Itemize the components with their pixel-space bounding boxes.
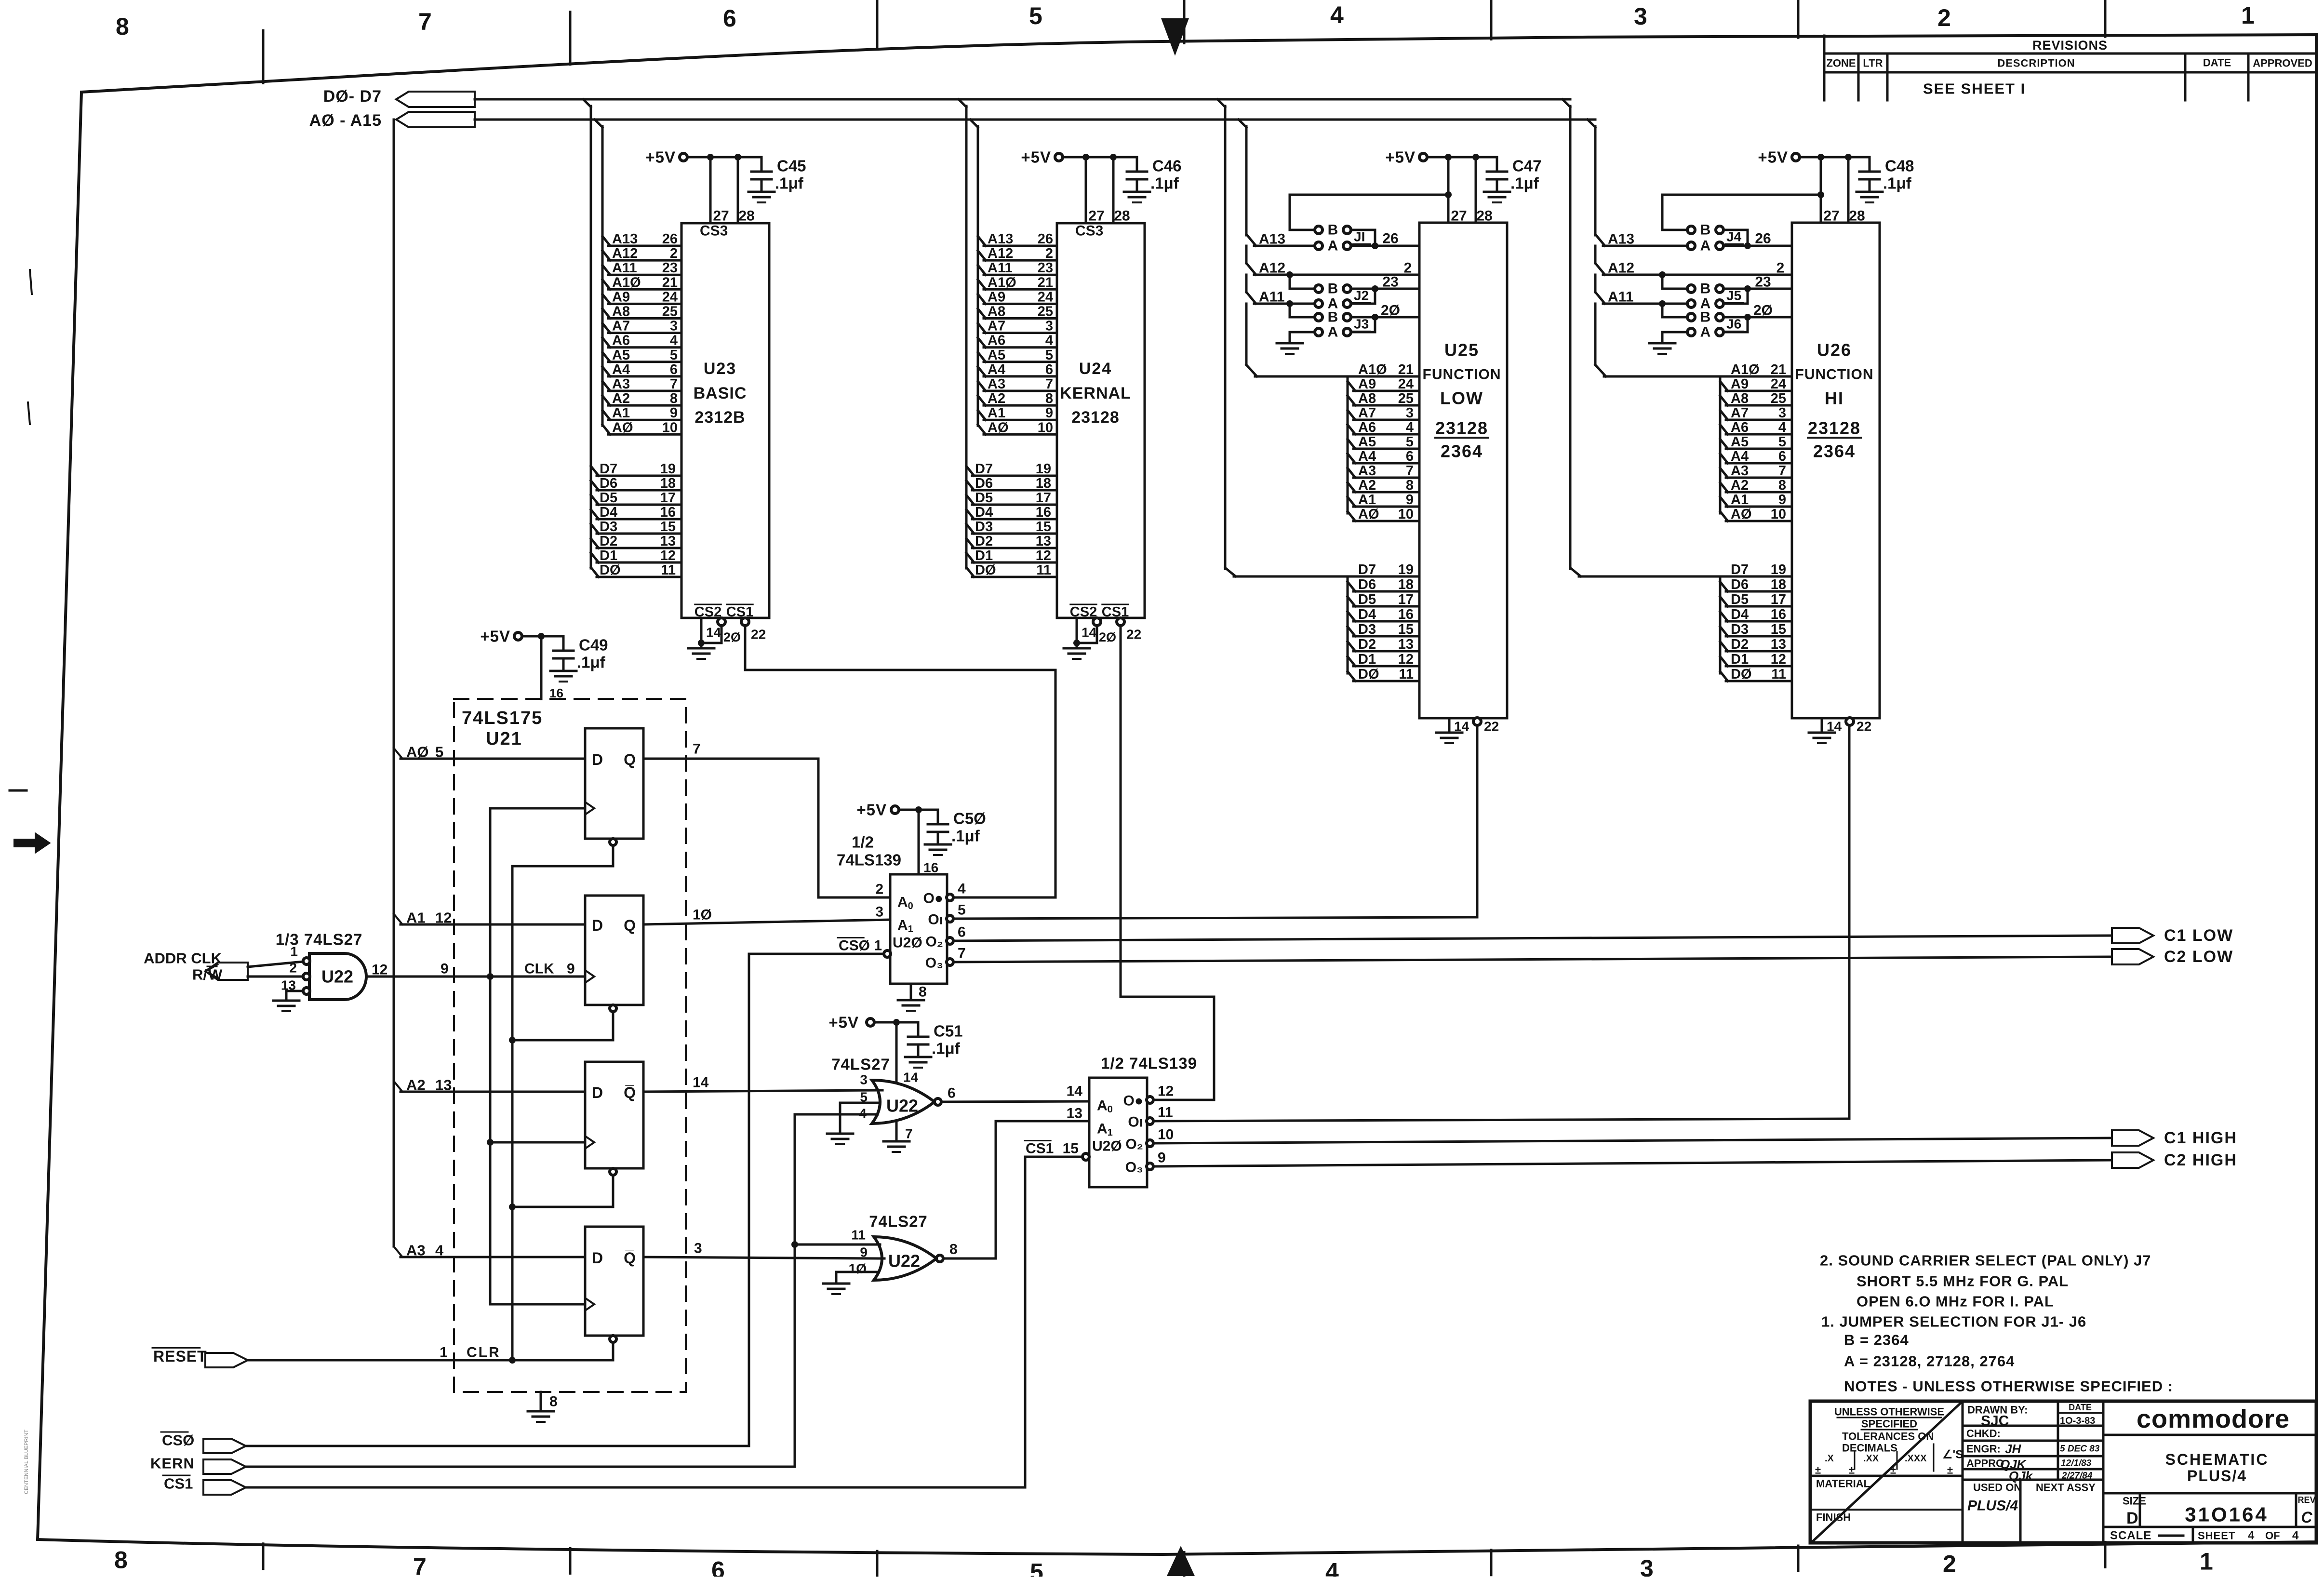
svg-text:+5V: +5V xyxy=(480,628,510,645)
svg-text:O₂: O₂ xyxy=(1125,1137,1143,1152)
svg-text:9: 9 xyxy=(1045,405,1053,421)
svg-text:15: 15 xyxy=(1063,1141,1079,1157)
svg-text:OPEN 6.O MHz FOR I. PAL: OPEN 6.O MHz FOR I. PAL xyxy=(1857,1293,2054,1310)
svg-text:14: 14 xyxy=(706,625,721,640)
svg-text:U24: U24 xyxy=(1079,360,1112,378)
svg-text:12: 12 xyxy=(435,910,452,926)
svg-text:A4: A4 xyxy=(1731,449,1749,464)
svg-text:.1μf: .1μf xyxy=(577,654,606,671)
svg-text:AØ: AØ xyxy=(612,420,633,435)
svg-text:1Ø: 1Ø xyxy=(693,907,712,923)
svg-text:26: 26 xyxy=(1755,231,1771,247)
svg-text:A5: A5 xyxy=(1731,434,1749,450)
svg-text:6: 6 xyxy=(670,362,678,377)
svg-text:D7: D7 xyxy=(1358,562,1376,577)
svg-text:11: 11 xyxy=(851,1228,866,1243)
svg-text:11: 11 xyxy=(1399,667,1414,682)
svg-text:2: 2 xyxy=(1045,246,1053,261)
svg-text:U21: U21 xyxy=(486,729,522,749)
svg-text:.1μf: .1μf xyxy=(1883,174,1912,192)
svg-text:CS3: CS3 xyxy=(700,223,728,239)
svg-text:3: 3 xyxy=(1406,405,1414,421)
svg-text:D: D xyxy=(592,917,603,934)
svg-text:A: A xyxy=(1700,238,1711,254)
svg-text:6: 6 xyxy=(1778,449,1786,464)
svg-text:15: 15 xyxy=(1398,622,1414,637)
svg-text:D4: D4 xyxy=(1731,607,1749,622)
svg-text:18: 18 xyxy=(1036,476,1051,491)
svg-text:CS3: CS3 xyxy=(1075,223,1103,239)
svg-text:PLUS/4: PLUS/4 xyxy=(2187,1467,2247,1485)
svg-text:5: 5 xyxy=(1029,2,1042,29)
svg-text:A2: A2 xyxy=(1731,478,1749,493)
svg-text:13: 13 xyxy=(660,534,676,549)
svg-text:A13: A13 xyxy=(988,231,1013,247)
svg-text:A3: A3 xyxy=(612,376,630,392)
svg-text:D1: D1 xyxy=(600,548,617,563)
svg-text:MATERIAL: MATERIAL xyxy=(1816,1478,1870,1490)
svg-text:13: 13 xyxy=(1398,637,1414,652)
svg-text:U22: U22 xyxy=(321,967,353,987)
svg-text:14: 14 xyxy=(1827,719,1842,734)
svg-text:74LS27: 74LS27 xyxy=(831,1056,890,1073)
svg-text:23: 23 xyxy=(662,260,678,276)
svg-text:15: 15 xyxy=(1771,622,1786,637)
svg-text:J5: J5 xyxy=(1726,288,1741,303)
svg-text:9: 9 xyxy=(441,961,449,977)
svg-text:26: 26 xyxy=(1382,231,1398,247)
svg-text:HI: HI xyxy=(1825,388,1844,408)
svg-text:REV: REV xyxy=(2297,1495,2315,1505)
svg-text:U22: U22 xyxy=(888,1251,920,1271)
svg-text:D4: D4 xyxy=(975,505,993,520)
svg-text:A7: A7 xyxy=(988,319,1005,334)
svg-text:4: 4 xyxy=(1406,420,1414,435)
svg-text:SCHEMATIC: SCHEMATIC xyxy=(2165,1451,2269,1468)
svg-text:D7: D7 xyxy=(975,461,993,477)
svg-text:4: 4 xyxy=(2248,1529,2255,1542)
svg-text:3: 3 xyxy=(1778,405,1786,421)
svg-text:5: 5 xyxy=(1406,434,1414,450)
svg-text:8: 8 xyxy=(1406,478,1414,493)
svg-text:12: 12 xyxy=(372,962,387,978)
svg-text:A12: A12 xyxy=(988,246,1013,261)
svg-text:A4: A4 xyxy=(1358,449,1376,464)
svg-text:D3: D3 xyxy=(975,519,993,535)
svg-text:12: 12 xyxy=(1036,548,1051,563)
svg-text:UNLESS OTHERWISE: UNLESS OTHERWISE xyxy=(1834,1406,1944,1418)
svg-text:4: 4 xyxy=(670,333,678,348)
svg-text:.1μf: .1μf xyxy=(932,1040,961,1057)
svg-text:21: 21 xyxy=(1771,362,1786,377)
svg-text:22: 22 xyxy=(1857,719,1871,734)
svg-text:A11: A11 xyxy=(1608,289,1633,305)
svg-text:CSØ: CSØ xyxy=(162,1432,194,1449)
svg-text:A1: A1 xyxy=(612,405,630,421)
svg-text:7: 7 xyxy=(1045,376,1053,392)
svg-text:3: 3 xyxy=(670,319,678,334)
svg-text:2: 2 xyxy=(1776,260,1785,276)
svg-text:D: D xyxy=(592,1084,603,1101)
svg-text:A2: A2 xyxy=(988,391,1005,406)
svg-text:6: 6 xyxy=(958,924,966,940)
svg-text:A13: A13 xyxy=(1259,231,1285,247)
svg-text:17: 17 xyxy=(1771,592,1786,607)
svg-text:A = 23128, 27128, 2764: A = 23128, 27128, 2764 xyxy=(1844,1353,2015,1370)
svg-text:8: 8 xyxy=(670,391,678,406)
svg-text:28: 28 xyxy=(1849,208,1865,224)
svg-text:12: 12 xyxy=(1158,1084,1174,1099)
svg-text:U23: U23 xyxy=(704,360,736,378)
svg-text:D2: D2 xyxy=(1358,637,1376,652)
svg-text:D6: D6 xyxy=(1358,577,1376,592)
svg-text:A: A xyxy=(1700,324,1711,340)
svg-text:8: 8 xyxy=(949,1242,958,1258)
svg-text:C45: C45 xyxy=(777,157,806,175)
svg-text:LOW: LOW xyxy=(1440,388,1483,408)
svg-text:FINISH: FINISH xyxy=(1816,1512,1851,1524)
svg-text:USED ON: USED ON xyxy=(1973,1482,2021,1494)
svg-text:D3: D3 xyxy=(600,519,617,535)
svg-text:18: 18 xyxy=(660,476,676,491)
svg-text:14: 14 xyxy=(903,1070,919,1085)
svg-text:26: 26 xyxy=(1038,231,1053,247)
svg-text:LTR: LTR xyxy=(1863,57,1883,69)
svg-text:SHEET: SHEET xyxy=(2198,1530,2235,1542)
svg-text:A8: A8 xyxy=(612,304,630,320)
svg-text:A7: A7 xyxy=(1731,405,1749,421)
svg-text:A: A xyxy=(1328,238,1338,254)
svg-text:U2Ø: U2Ø xyxy=(893,935,922,951)
svg-text:28: 28 xyxy=(1114,208,1130,224)
svg-text:±: ± xyxy=(1947,1464,1953,1476)
svg-text:.X: .X xyxy=(1825,1453,1834,1464)
svg-text:8: 8 xyxy=(1045,391,1053,406)
svg-text:ZONE: ZONE xyxy=(1826,57,1856,69)
svg-text:A1: A1 xyxy=(1358,492,1376,508)
svg-text:A: A xyxy=(1328,324,1338,340)
svg-text:Q̅: Q̅ xyxy=(624,1249,636,1267)
svg-text:AØ: AØ xyxy=(988,420,1009,435)
svg-text:A5: A5 xyxy=(1358,434,1376,450)
svg-text:D: D xyxy=(2126,1509,2138,1527)
svg-text:1. JUMPER SELECTION FOR: 1. JUMPER SELECTION FOR J1- J6 xyxy=(1821,1313,2086,1330)
svg-text:4: 4 xyxy=(2292,1529,2299,1542)
svg-text:A8: A8 xyxy=(1731,391,1749,406)
svg-text:C2 HIGH: C2 HIGH xyxy=(2164,1151,2237,1169)
svg-text:1/2 74LS139: 1/2 74LS139 xyxy=(1101,1055,1197,1072)
svg-text:7: 7 xyxy=(413,1553,427,1577)
svg-text:9: 9 xyxy=(567,961,575,977)
svg-text:6: 6 xyxy=(1406,449,1414,464)
svg-text:BASIC: BASIC xyxy=(694,384,747,402)
svg-text:27: 27 xyxy=(713,208,729,224)
svg-text:2364: 2364 xyxy=(1441,442,1483,461)
svg-text:A1Ø: A1Ø xyxy=(988,275,1016,290)
svg-text:CSØ: CSØ xyxy=(839,938,870,954)
svg-text:3: 3 xyxy=(694,1241,702,1257)
svg-text:21: 21 xyxy=(1038,275,1053,290)
svg-text:DØ: DØ xyxy=(1731,667,1752,682)
svg-text:CHKD:: CHKD: xyxy=(1966,1428,2001,1440)
svg-text:D1: D1 xyxy=(975,548,993,563)
svg-text:CS1: CS1 xyxy=(1026,1141,1054,1157)
svg-text:7: 7 xyxy=(905,1126,913,1141)
svg-text:74LS27: 74LS27 xyxy=(869,1213,928,1231)
svg-text:B: B xyxy=(1700,281,1711,297)
svg-text:B: B xyxy=(1328,309,1338,325)
svg-text:DØ: DØ xyxy=(975,562,996,578)
svg-text:A2: A2 xyxy=(1358,478,1376,493)
svg-text:12: 12 xyxy=(660,548,676,563)
svg-text:C1 LOW: C1 LOW xyxy=(2164,926,2233,945)
svg-text:C: C xyxy=(2301,1509,2312,1526)
svg-text:8: 8 xyxy=(549,1394,558,1410)
svg-text:13: 13 xyxy=(1036,534,1051,549)
svg-text:10: 10 xyxy=(1398,507,1414,522)
svg-text:25: 25 xyxy=(1771,391,1786,406)
svg-text:OF: OF xyxy=(2265,1530,2280,1542)
svg-text:+5V: +5V xyxy=(856,801,887,819)
svg-text:A12: A12 xyxy=(612,246,638,261)
svg-text:D7: D7 xyxy=(1731,562,1749,577)
svg-text:4: 4 xyxy=(958,881,966,897)
svg-text:A3: A3 xyxy=(988,376,1005,392)
svg-text:J2: J2 xyxy=(1354,288,1369,303)
svg-text:A6: A6 xyxy=(612,333,630,348)
svg-text:9: 9 xyxy=(1406,492,1414,508)
svg-text:DESCRIPTION: DESCRIPTION xyxy=(1997,57,2075,69)
svg-text:D2: D2 xyxy=(975,534,993,549)
svg-text:26: 26 xyxy=(662,231,678,247)
svg-text:C1 HIGH: C1 HIGH xyxy=(2164,1129,2237,1147)
svg-text:NEXT ASSY: NEXT ASSY xyxy=(2036,1482,2096,1494)
svg-text:8: 8 xyxy=(1778,478,1786,493)
svg-text:U22: U22 xyxy=(886,1096,918,1116)
svg-text:Oı: Oı xyxy=(1128,1114,1143,1130)
svg-text:SHORT 5.5 MHz FOR G. PAL: SHORT 5.5 MHz FOR G. PAL xyxy=(1857,1273,2069,1290)
svg-text:5: 5 xyxy=(435,744,443,761)
svg-text:commodore: commodore xyxy=(2137,1405,2290,1433)
svg-text:A6: A6 xyxy=(988,333,1005,348)
svg-text:APPROVED: APPROVED xyxy=(2253,57,2312,69)
svg-text:5: 5 xyxy=(1778,434,1786,450)
svg-text:C46: C46 xyxy=(1152,157,1182,175)
svg-text:1: 1 xyxy=(290,944,298,959)
svg-text:D1: D1 xyxy=(1731,652,1749,667)
svg-text:9: 9 xyxy=(860,1245,868,1260)
svg-text:5 DEC 83: 5 DEC 83 xyxy=(2060,1444,2100,1454)
svg-text:25: 25 xyxy=(1398,391,1414,406)
svg-text:FUNCTION: FUNCTION xyxy=(1423,367,1501,383)
svg-text:4: 4 xyxy=(1778,420,1786,435)
svg-text:13: 13 xyxy=(1067,1106,1082,1122)
svg-text:DØ- D7: DØ- D7 xyxy=(323,87,382,106)
svg-text:J3: J3 xyxy=(1354,317,1369,332)
svg-text:3: 3 xyxy=(860,1072,868,1087)
svg-text:CS1: CS1 xyxy=(164,1475,193,1492)
svg-text:A4: A4 xyxy=(988,362,1005,377)
svg-text:C47: C47 xyxy=(1512,157,1542,175)
svg-text:KERN: KERN xyxy=(150,1455,195,1472)
svg-text:10: 10 xyxy=(1158,1127,1174,1143)
svg-text:D5: D5 xyxy=(1731,592,1749,607)
svg-text:.1μf: .1μf xyxy=(1150,174,1179,192)
svg-text:23128: 23128 xyxy=(1435,418,1488,438)
svg-text:DØ: DØ xyxy=(1358,667,1379,682)
svg-text:13: 13 xyxy=(435,1077,452,1094)
svg-text:2Ø: 2Ø xyxy=(723,630,741,644)
svg-text:A5: A5 xyxy=(988,348,1005,363)
svg-text:8: 8 xyxy=(919,984,927,1000)
svg-text:.1μf: .1μf xyxy=(775,174,804,192)
svg-text:7: 7 xyxy=(670,376,678,392)
svg-text:+5V: +5V xyxy=(1758,148,1788,166)
svg-text:16: 16 xyxy=(660,505,676,520)
svg-text:16: 16 xyxy=(1771,607,1786,622)
svg-text:23: 23 xyxy=(1038,260,1053,276)
svg-text:17: 17 xyxy=(1036,490,1051,506)
svg-text:21: 21 xyxy=(1398,362,1414,377)
svg-text:A7: A7 xyxy=(612,319,630,334)
svg-text:4: 4 xyxy=(435,1242,444,1259)
svg-text:5: 5 xyxy=(670,348,678,363)
svg-text:2. SOUND CARRIER SELECT (: 2. SOUND CARRIER SELECT (PAL ONLY) J7 xyxy=(1820,1252,2151,1269)
svg-text:+5V: +5V xyxy=(645,148,676,166)
svg-text:A0: A0 xyxy=(1097,1098,1113,1115)
svg-text:SEE SHEET I: SEE SHEET I xyxy=(1923,80,2026,97)
svg-text:Q̅: Q̅ xyxy=(624,1084,636,1101)
svg-text:C2 LOW: C2 LOW xyxy=(2164,948,2233,966)
svg-text:A6: A6 xyxy=(1731,420,1749,435)
svg-text:B = 2364: B = 2364 xyxy=(1844,1332,1909,1349)
svg-text:DATE: DATE xyxy=(2203,57,2231,69)
svg-text:C48: C48 xyxy=(1885,157,1914,175)
svg-text:A1Ø: A1Ø xyxy=(612,275,641,290)
svg-text:19: 19 xyxy=(1036,461,1051,477)
svg-text:.1μf: .1μf xyxy=(951,827,980,845)
svg-text:1: 1 xyxy=(440,1345,448,1361)
svg-text:DØ: DØ xyxy=(600,562,621,578)
svg-text:A11: A11 xyxy=(1259,289,1284,305)
svg-text:2: 2 xyxy=(875,882,883,897)
svg-text:1/2: 1/2 xyxy=(852,833,874,851)
svg-text:1Ø: 1Ø xyxy=(849,1261,867,1276)
svg-text:A13: A13 xyxy=(1608,231,1634,247)
svg-text:1: 1 xyxy=(874,938,882,954)
svg-text:AØ: AØ xyxy=(1358,507,1379,522)
svg-text:A13: A13 xyxy=(612,231,638,247)
svg-text:R/: R/ xyxy=(192,966,207,983)
svg-text:+5V: +5V xyxy=(1021,148,1051,166)
svg-text:A9: A9 xyxy=(1731,376,1749,392)
svg-text:17: 17 xyxy=(1398,592,1414,607)
svg-text:D4: D4 xyxy=(1358,607,1376,622)
svg-text:23128: 23128 xyxy=(1808,418,1861,438)
svg-text:1: 1 xyxy=(2241,2,2255,29)
svg-text:25: 25 xyxy=(1038,304,1053,320)
svg-text:CS2: CS2 xyxy=(1070,604,1097,620)
svg-text:D6: D6 xyxy=(600,476,617,491)
svg-text:A8: A8 xyxy=(1358,391,1376,406)
svg-text:7: 7 xyxy=(958,946,966,962)
svg-text:A7: A7 xyxy=(1358,405,1376,421)
svg-text:5: 5 xyxy=(1030,1559,1043,1577)
svg-text:27: 27 xyxy=(1451,208,1467,224)
svg-text:A11: A11 xyxy=(988,260,1013,276)
svg-text:6: 6 xyxy=(1045,362,1053,377)
svg-text:11: 11 xyxy=(1158,1105,1173,1121)
svg-text:9: 9 xyxy=(1778,492,1786,508)
svg-text:AØ: AØ xyxy=(1731,507,1752,522)
svg-text:D3: D3 xyxy=(1731,622,1749,637)
svg-text:B: B xyxy=(1700,222,1711,238)
svg-text:10: 10 xyxy=(662,420,678,435)
svg-text:6: 6 xyxy=(711,1557,725,1577)
svg-text:19: 19 xyxy=(1771,562,1786,577)
svg-text:2/27/84: 2/27/84 xyxy=(2061,1471,2093,1481)
svg-text:B: B xyxy=(1328,281,1338,297)
svg-text:SJC: SJC xyxy=(1981,1413,2009,1429)
svg-text:16: 16 xyxy=(1036,505,1051,520)
svg-text:Q: Q xyxy=(624,917,636,934)
svg-text:A1: A1 xyxy=(1097,1121,1113,1138)
svg-text:19: 19 xyxy=(660,461,676,477)
svg-text:2Ø: 2Ø xyxy=(1753,303,1773,319)
svg-text:74LS139: 74LS139 xyxy=(837,851,901,869)
svg-text:12: 12 xyxy=(1398,652,1414,667)
svg-text:D5: D5 xyxy=(1358,592,1376,607)
svg-text:23: 23 xyxy=(1755,274,1771,290)
svg-text:19: 19 xyxy=(1398,562,1414,577)
svg-text:DECIMALS: DECIMALS xyxy=(1842,1442,1897,1454)
svg-text:A3: A3 xyxy=(1358,463,1376,479)
svg-text:A1: A1 xyxy=(988,405,1005,421)
svg-text:D6: D6 xyxy=(1731,577,1749,592)
svg-text:15: 15 xyxy=(1036,519,1051,535)
svg-text:7: 7 xyxy=(418,8,432,35)
svg-text:O●: O● xyxy=(1123,1093,1143,1109)
svg-text:A4: A4 xyxy=(612,362,630,377)
svg-text:7: 7 xyxy=(1406,463,1414,479)
svg-text:RESET: RESET xyxy=(153,1348,207,1365)
svg-text:DATE: DATE xyxy=(2069,1403,2092,1412)
svg-text:14: 14 xyxy=(693,1075,709,1091)
svg-text:2Ø: 2Ø xyxy=(1099,630,1116,644)
svg-text:24: 24 xyxy=(1398,376,1414,392)
svg-text:±: ± xyxy=(1849,1464,1855,1476)
svg-text:D2: D2 xyxy=(600,534,617,549)
svg-text:15: 15 xyxy=(660,519,676,535)
svg-text:4: 4 xyxy=(1045,333,1053,348)
svg-text:9: 9 xyxy=(1158,1150,1166,1166)
svg-text:1O-3-83: 1O-3-83 xyxy=(2060,1416,2095,1426)
svg-text:A1: A1 xyxy=(406,910,426,926)
svg-text:CLK: CLK xyxy=(524,961,554,977)
svg-text:14: 14 xyxy=(1082,625,1097,640)
svg-text:11: 11 xyxy=(1771,667,1786,682)
svg-text:NOTES - UNLESS OTHERWISE SPE: NOTES - UNLESS OTHERWISE SPECIFIED : xyxy=(1844,1378,2173,1395)
svg-text:D4: D4 xyxy=(600,505,617,520)
svg-text:12: 12 xyxy=(1771,652,1786,667)
svg-text:9: 9 xyxy=(670,405,678,421)
svg-text:28: 28 xyxy=(738,208,754,224)
svg-text:2: 2 xyxy=(1943,1551,1956,1577)
svg-text:ENGR:: ENGR: xyxy=(1966,1443,2001,1455)
svg-text:JI: JI xyxy=(1354,229,1365,244)
svg-text:.1μf: .1μf xyxy=(1510,174,1539,192)
svg-text:23: 23 xyxy=(1382,274,1398,290)
